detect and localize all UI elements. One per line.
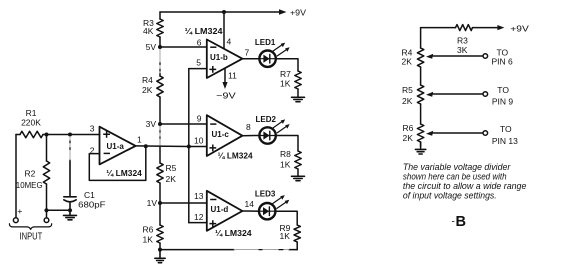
svg-text:of input voltage settings.: of input voltage settings.	[403, 191, 497, 201]
svg-text:PIN 6: PIN 6	[492, 57, 514, 67]
wire faint rail 5V-R4	[159, 49, 161, 74]
svg-text:¼ LM324: ¼ LM324	[215, 229, 252, 238]
svg-text:+: +	[17, 206, 22, 216]
wire input left terminal riser	[15, 135, 17, 218]
ground main bottom	[155, 250, 165, 263]
svg-text:R1: R1	[26, 108, 37, 118]
wire U1-a output	[136, 145, 189, 148]
svg-text:7: 7	[245, 48, 250, 58]
wire bottom return faint section	[234, 249, 289, 251]
svg-text:4K: 4K	[143, 26, 154, 36]
wire R2 bottom to C1 ground	[47, 209, 71, 211]
node C1 top	[68, 133, 72, 137]
wire pin11 arrow to -9V	[224, 68, 226, 84]
svg-text:9: 9	[197, 114, 202, 124]
svg-text:R8: R8	[280, 149, 291, 159]
svg-text:−9V: −9V	[216, 91, 236, 101]
resistor R2	[43, 161, 49, 184]
wire pin10 into U1-c	[189, 146, 207, 148]
node junction pin4 on rail	[222, 10, 226, 14]
terminal TO PIN9	[483, 92, 488, 97]
wire R8 to ground	[297, 169, 299, 176]
wire R1 row	[16, 134, 100, 136]
brace INPUT	[9, 224, 51, 230]
wire LED2 to R8	[276, 136, 298, 152]
svg-text:shown here can be used with: shown here can be used with	[403, 171, 507, 181]
svg-text:B: B	[456, 214, 467, 230]
svg-text:11: 11	[228, 71, 237, 81]
svg-text:U1-b: U1-b	[210, 53, 228, 62]
terminal input second	[44, 218, 49, 223]
svg-text:5V: 5V	[146, 42, 157, 52]
resistor R8	[295, 151, 301, 169]
op-amp U1-a	[100, 127, 136, 165]
wire faint rail 3V-junction	[159, 126, 161, 147]
svg-text:2K: 2K	[166, 174, 177, 184]
wire R2 vertical	[46, 135, 48, 218]
svg-text:LED1: LED1	[255, 38, 276, 47]
resistor R4	[157, 76, 163, 97]
svg-text:2K: 2K	[402, 96, 413, 106]
wire R9 to bottom return	[296, 242, 298, 250]
svg-text:PIN 9: PIN 9	[492, 96, 514, 106]
wire U1-d output pin14	[242, 210, 258, 212]
LED2	[259, 127, 275, 143]
wiper R5 wire	[432, 93, 483, 95]
svg-text:3: 3	[90, 124, 95, 134]
+9V arrow main	[279, 9, 287, 14]
svg-text:2: 2	[90, 146, 95, 156]
svg-text:LED2: LED2	[256, 115, 277, 124]
resistor R7	[295, 71, 301, 89]
svg-text:1K: 1K	[143, 235, 154, 245]
node pin10 junction	[187, 145, 191, 149]
svg-text:The variable voltage divider: The variable voltage divider	[403, 162, 511, 172]
svg-text:1: 1	[137, 135, 142, 145]
wire pin4	[223, 12, 225, 49]
wire 5V to pin6	[160, 46, 207, 48]
wire 1V to pin13	[160, 202, 207, 204]
svg-text:R5: R5	[166, 163, 177, 173]
node 1V	[158, 201, 162, 205]
terminal TO PIN13	[483, 131, 488, 136]
svg-text:1K: 1K	[280, 79, 291, 89]
svg-text:C1: C1	[84, 190, 95, 200]
resistor R6	[157, 225, 163, 243]
resistor R5 B pot	[417, 85, 423, 104]
svg-text:¼ LM324: ¼ LM324	[218, 151, 253, 160]
svg-text:U1-c: U1-c	[212, 130, 230, 139]
svg-text:14: 14	[245, 199, 255, 209]
capacitor C1	[64, 160, 76, 210]
svg-text:¼ LM324: ¼ LM324	[106, 169, 142, 178]
svg-text:-: -	[452, 217, 455, 228]
resistor R3 B	[456, 25, 473, 31]
resistor R3	[157, 19, 163, 37]
svg-text:1V: 1V	[147, 198, 158, 208]
svg-text:TO: TO	[500, 124, 512, 134]
svg-text:2K: 2K	[142, 85, 153, 95]
LED3 arrows	[273, 197, 287, 208]
wire U1-b output pin7	[242, 58, 259, 60]
svg-text:+9V: +9V	[510, 23, 529, 33]
node 3V	[158, 122, 162, 126]
wire faint C1 drop	[69, 137, 71, 161]
svg-text:5: 5	[196, 58, 201, 68]
resistor R4 B pot	[417, 48, 423, 67]
op-amp U1-d	[207, 191, 243, 231]
svg-text:6: 6	[197, 38, 202, 48]
wire LED3 to R9	[275, 211, 297, 225]
terminal input plus	[13, 218, 18, 223]
svg-text:¼ LM324: ¼ LM324	[185, 27, 224, 36]
wire 3V to pin9	[160, 123, 207, 125]
wiper R6 wire	[432, 132, 483, 134]
node R2 top	[45, 133, 49, 137]
svg-text:R2: R2	[25, 169, 36, 179]
svg-text:R7: R7	[280, 69, 291, 79]
svg-text:8: 8	[246, 122, 251, 132]
terminal TO PIN6	[483, 54, 488, 59]
svg-text:10MEG: 10MEG	[16, 180, 43, 190]
svg-text:INPUT: INPUT	[20, 232, 43, 243]
wire B top to +9V	[421, 27, 498, 29]
svg-text:the circuit to allow a wide ra: the circuit to allow a wide range	[403, 181, 527, 191]
svg-text:680pF: 680pF	[78, 200, 105, 210]
wire vertical pin5-pin10-pin12	[188, 69, 190, 223]
wire pin12	[189, 222, 207, 224]
svg-text:3K: 3K	[457, 45, 468, 55]
svg-text:TO: TO	[497, 85, 509, 95]
ground B divider	[415, 149, 425, 154]
wire pin2 feedback loop	[89, 146, 146, 180]
LED2 arrows	[273, 121, 287, 132]
wire pin5	[189, 68, 207, 70]
svg-text:220K: 220K	[21, 118, 41, 128]
node ground junction	[158, 248, 162, 252]
ground C1	[64, 210, 77, 220]
op-amp U1-c	[207, 115, 243, 156]
node R2 bottom	[44, 208, 48, 212]
svg-text:1K: 1K	[280, 160, 291, 170]
wire LED1 to R7	[276, 59, 298, 71]
wiper R4 wire	[432, 55, 483, 57]
svg-text:U1-d: U1-d	[211, 205, 229, 214]
wire divider rail upper	[159, 12, 161, 250]
svg-text:2K: 2K	[402, 56, 413, 66]
svg-text:R3: R3	[457, 36, 468, 46]
svg-text:U1-a: U1-a	[107, 142, 125, 151]
wire R7 to ground	[297, 89, 299, 97]
svg-text:13: 13	[194, 191, 204, 201]
svg-text:1K: 1K	[280, 231, 291, 241]
resistor R6 B pot	[417, 124, 423, 142]
wire bottom return to R9	[160, 249, 297, 251]
wire top +9V rail	[160, 11, 280, 13]
resistor R1	[20, 131, 43, 137]
ground R7	[292, 97, 305, 101]
svg-text:LED3: LED3	[255, 190, 276, 199]
LED3	[259, 203, 275, 219]
wire U1-c output pin8	[242, 135, 259, 137]
node U1-a output	[144, 144, 148, 148]
ground R8	[292, 176, 305, 180]
svg-text:3V: 3V	[146, 119, 157, 129]
svg-text:PIN 13: PIN 13	[492, 136, 518, 146]
wire divider B rail	[420, 28, 422, 147]
svg-text:10: 10	[194, 136, 204, 146]
svg-text:R4: R4	[142, 75, 153, 85]
LED1 arrows	[273, 45, 287, 56]
svg-text:12: 12	[194, 212, 204, 222]
svg-text:R6: R6	[403, 123, 414, 133]
op-amp U1-b	[207, 40, 243, 79]
svg-text:R5: R5	[402, 85, 413, 95]
svg-text:R6: R6	[143, 225, 154, 235]
svg-text:2K: 2K	[403, 133, 414, 143]
+9V arrow B	[497, 25, 504, 30]
svg-text:4: 4	[227, 37, 232, 47]
resistor R5	[157, 163, 163, 183]
node 5V	[158, 45, 162, 49]
svg-text:+9V: +9V	[290, 8, 306, 18]
resistor R9	[294, 225, 300, 242]
node C1 ground junction	[68, 208, 72, 212]
LED1	[259, 51, 275, 67]
